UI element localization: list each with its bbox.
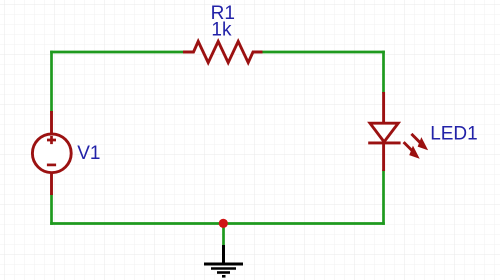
wire: bottom horizontal segment [52, 222, 384, 225]
svg-text:1k: 1k [211, 20, 232, 41]
ground bar 3 [217, 271, 230, 274]
V1 plus polarity mark [47, 136, 56, 144]
LED1 diode triangle [370, 123, 398, 142]
R1 body zigzag with leads [183, 41, 263, 62]
ground pin stem [222, 245, 225, 263]
voltage source V1 [32, 111, 71, 195]
LED1 emission arrow 2 head [410, 147, 419, 158]
junction node (bottom net / ground) [219, 219, 228, 228]
wire: right vertical lower segment [382, 171, 385, 224]
ground bar 2 [211, 267, 236, 270]
LED1 cathode bar [368, 141, 400, 144]
svg-text:LED1: LED1 [430, 124, 478, 145]
wire: ground stub from bottom net [222, 224, 225, 247]
wire: top-right horizontal segment (R1 right lead to LED1 top) [263, 51, 384, 54]
ground bar 1 (widest) [204, 263, 243, 266]
LED1 emission arrow 1 shaft [411, 134, 421, 144]
wire: left vertical upper segment [50, 52, 53, 111]
ground bar 4 (smallest) [222, 275, 226, 278]
LED1 anode pin (top) [382, 92, 385, 124]
ground [204, 245, 243, 276]
V1 positive pin (top) [50, 111, 53, 135]
LED1 cathode pin (bottom) [382, 143, 385, 171]
LED1 emission arrow 2 shaft [404, 142, 413, 151]
LED LED1 [368, 92, 427, 171]
wire: left vertical lower segment [50, 195, 53, 224]
svg-text:V1: V1 [77, 143, 100, 164]
V1 negative pin (bottom) [50, 173, 53, 196]
V1 body circle [32, 134, 71, 173]
V1 minus polarity mark [47, 164, 56, 167]
wire: top-left horizontal segment (V1 top to R1 left lead) [52, 51, 184, 54]
LED1 emission arrow 1 head [418, 138, 427, 149]
resistor R1 [183, 41, 263, 62]
wire: right vertical upper segment [382, 52, 385, 92]
